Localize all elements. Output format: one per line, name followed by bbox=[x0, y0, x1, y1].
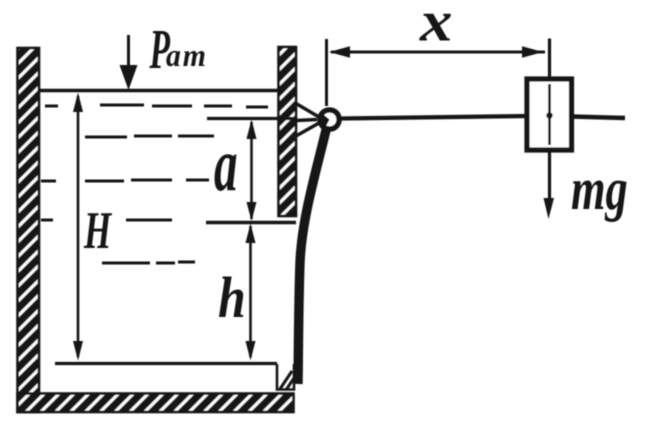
svg-text:h: h bbox=[218, 266, 246, 330]
dimension h arrow bbox=[246, 224, 256, 361]
svg-text:am: am bbox=[166, 37, 208, 73]
svg-text:H: H bbox=[83, 201, 113, 260]
svg-text:mg: mg bbox=[571, 157, 628, 223]
floor step hatch strokes bbox=[280, 371, 294, 390]
tank bottom (hatched) bbox=[18, 394, 294, 413]
x-dimension right extension / mg line bbox=[548, 39, 551, 201]
water surface line bbox=[39, 89, 279, 92]
water dashes row 5 bbox=[102, 262, 195, 263]
ledge line (gate top level) bbox=[206, 221, 296, 224]
floor step outline bottom-right bbox=[277, 364, 294, 390]
water dashes row 4 bbox=[41, 219, 172, 222]
label Pam bbox=[149, 18, 208, 80]
hinge pin circle bbox=[320, 110, 339, 129]
tank left wall (hatched) bbox=[18, 48, 40, 412]
svg-text:x: x bbox=[419, 0, 453, 54]
lever arm left segment bbox=[340, 116, 528, 119]
dimension a arrow bbox=[247, 120, 257, 222]
hinge level line bbox=[207, 117, 296, 120]
x-dimension left extension line bbox=[325, 39, 328, 106]
lever arm right segment bbox=[571, 117, 625, 119]
weight center pivot dot bbox=[546, 112, 552, 118]
water dashes row 3 bbox=[41, 180, 209, 181]
dimension H arrow bbox=[73, 93, 83, 361]
svg-text:a: a bbox=[214, 123, 238, 207]
tank inner right wall (hatched) bbox=[279, 47, 297, 216]
weight inner vertical line bbox=[548, 84, 551, 145]
dimension x arrow bbox=[329, 46, 545, 58]
weight block bbox=[527, 79, 572, 150]
flap gate (thick curved plate) bbox=[298, 126, 327, 384]
tank inner floor line bbox=[55, 362, 277, 365]
hinge pin dark crescent bbox=[319, 113, 330, 130]
mg arrowhead bbox=[544, 198, 555, 219]
Pam arrow bbox=[120, 35, 138, 90]
water dashes row 2 bbox=[85, 136, 214, 137]
water dashes row 1 bbox=[45, 105, 268, 107]
hinge bracket lines bbox=[296, 104, 319, 137]
